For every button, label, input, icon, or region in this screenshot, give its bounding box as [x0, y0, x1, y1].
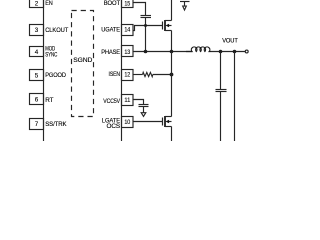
wire ISEN stub [133, 74, 143, 76]
svg-text:13: 13 [124, 49, 130, 56]
node phase-fet junction [170, 50, 174, 54]
pin box 6 [30, 94, 44, 105]
pin box 10 [122, 117, 134, 128]
terminal VOUT open circle [245, 50, 248, 53]
capacitor output bottom plate [216, 91, 227, 93]
pin box 7 [30, 119, 44, 130]
svg-text:11: 11 [124, 97, 130, 104]
svg-text:6: 6 [35, 97, 39, 104]
wire boot cap to PHASE [145, 18, 147, 52]
svg-text:SGND: SGND [73, 57, 92, 64]
svg-text:4: 4 [35, 49, 39, 56]
svg-text:UGATE: UGATE [101, 27, 120, 34]
pin box 13 [122, 46, 134, 57]
svg-text:7: 7 [35, 121, 39, 128]
svg-text:12: 12 [124, 72, 130, 79]
wire ISEN to phase node [153, 74, 172, 76]
wire PHASE [133, 51, 192, 53]
IC right edge line [121, 0, 123, 141]
pin box 11 [122, 95, 134, 106]
wire output branch1 lower [220, 92, 222, 142]
pin box 2 [30, 0, 44, 8]
capacitor Cvcc top plate [139, 104, 149, 106]
wire cap to ground [143, 107, 145, 113]
svg-text:EN: EN [45, 0, 53, 7]
svg-text:3: 3 [35, 27, 39, 34]
svg-text:VOUT: VOUT [222, 38, 238, 45]
node output cap1 junction [219, 50, 223, 54]
node boot-phase junction [144, 50, 148, 54]
svg-text:PGOOD: PGOOD [45, 72, 66, 79]
transistor Q1 high-side MOSFET [163, 0, 172, 52]
wire VOUT rail [211, 51, 245, 53]
svg-text:ISEN: ISEN [109, 71, 121, 78]
pin box 4 [30, 47, 44, 57]
node output cap2 junction [233, 50, 237, 54]
ground symbol top-right (cropped input cap) [180, 2, 190, 11]
svg-text:PHASE: PHASE [101, 49, 120, 56]
svg-text:2: 2 [35, 1, 39, 8]
svg-text:14: 14 [124, 27, 130, 34]
svg-text:SYNC: SYNC [45, 52, 57, 59]
svg-text:5: 5 [35, 73, 39, 80]
pin box 12 [122, 70, 134, 81]
wire VCC5V stub [133, 100, 144, 105]
node isen junction [170, 73, 174, 77]
capacitor output top plate [216, 89, 227, 91]
transistor Q2 low-side MOSFET [163, 75, 172, 142]
svg-text:15: 15 [124, 0, 130, 7]
node ugate crossing blob [144, 24, 147, 27]
inductor L1 [186, 47, 211, 52]
capacitor bootstrap bottom plate [141, 17, 152, 19]
pin box 15 [122, 0, 134, 8]
wire LGATE [133, 121, 163, 123]
wire phase bus between PHASE and ISEN [171, 52, 173, 75]
SGND dashed boundary box [72, 11, 94, 117]
wire output branch2 [234, 52, 236, 142]
wire BOOT stub [133, 3, 146, 16]
capacitor Cvcc bottom plate [139, 106, 149, 108]
capacitor bootstrap top plate [141, 15, 152, 17]
svg-text:VCC5V: VCC5V [103, 98, 120, 105]
svg-text:RT: RT [45, 97, 53, 104]
svg-text:10: 10 [124, 119, 130, 126]
svg-text:OCS: OCS [107, 123, 121, 130]
IC left edge line [43, 0, 45, 141]
resistor Risen [143, 72, 153, 76]
svg-text:SS/TRK: SS/TRK [45, 121, 67, 128]
ground symbol (hollow arrow) below Cvcc [141, 113, 146, 117]
wire output branch1 upper [220, 52, 222, 90]
pin box 14 [122, 25, 134, 36]
pin box 3 [30, 25, 44, 36]
pin box 5 [30, 70, 44, 81]
wire UGATE with jog [133, 26, 163, 31]
svg-text:BOOT: BOOT [104, 0, 120, 7]
svg-text:CLKOUT: CLKOUT [45, 27, 68, 34]
